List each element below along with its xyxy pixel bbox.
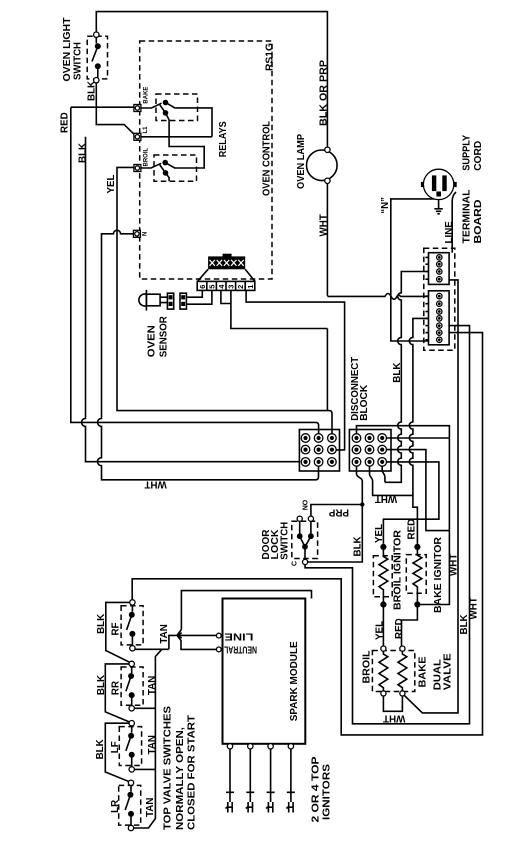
wire pin4 to terminal board	[221, 290, 328, 328]
svg-text:BLOCK: BLOCK	[359, 385, 370, 421]
svg-text:YEL: YEL	[374, 524, 385, 543]
svg-text:OVEN LAMP: OVEN LAMP	[296, 134, 307, 189]
svg-text:OVEN LIGHT: OVEN LIGHT	[62, 17, 73, 81]
svg-text:BROIL: BROIL	[361, 650, 372, 683]
wire door lock C loop to terminal board (BLK rail)	[305, 326, 469, 724]
svg-text:C: C	[291, 561, 298, 566]
svg-text:TAN: TAN	[145, 798, 156, 817]
wire pin5 to sensor	[186, 290, 212, 304]
disconnect block right	[349, 430, 391, 472]
svg-text:NEUTRAL: NEUTRAL	[224, 644, 257, 655]
svg-text:SWITCH: SWITCH	[280, 522, 291, 560]
wire v2 from terminal board to ignitor tops (with hops)	[409, 318, 428, 544]
TAN junction wires	[169, 630, 217, 650]
svg-text:SPARK MODULE: SPARK MODULE	[289, 641, 300, 721]
svg-text:RED: RED	[394, 618, 405, 639]
wire WHT A rail: terminal board to bake valve	[404, 280, 458, 713]
wire BLK chain RF to RR	[106, 602, 130, 662]
svg-text:CLOSED FOR START: CLOSED FOR START	[186, 715, 197, 830]
wire c3 jog to riser	[382, 466, 385, 482]
wire BLK chain LF to LR	[105, 723, 129, 781]
svg-text:TAN: TAN	[159, 624, 170, 643]
svg-text:N: N	[143, 232, 149, 236]
wire TAN RR bottom to bus	[134, 707, 155, 709]
svg-text:TOP VALVE SWITCHES: TOP VALVE SWITCHES	[162, 705, 173, 830]
svg-text:2 OR 4 TOP: 2 OR 4 TOP	[311, 756, 322, 823]
svg-text:CORD: CORD	[473, 141, 484, 171]
svg-text:VALVE: VALVE	[442, 653, 453, 691]
svg-text:YEL: YEL	[106, 174, 117, 193]
wire BLK from oven light switch to L1	[96, 83, 136, 137]
oven control dashed box	[140, 41, 272, 279]
svg-text:BROIL: BROIL	[143, 148, 149, 167]
valve switch LR	[119, 780, 141, 831]
svg-text:5: 5	[207, 285, 216, 289]
supply cord plug	[421, 169, 457, 199]
wire top feed from oven light switch to oven lamp	[96, 12, 327, 148]
oven control connector comb	[197, 254, 255, 282]
svg-text:LR: LR	[110, 800, 121, 813]
svg-text:6: 6	[198, 285, 207, 289]
svg-text:1: 1	[246, 285, 255, 289]
svg-text:BOARD: BOARD	[473, 200, 484, 244]
broil ignitor	[373, 544, 392, 608]
wire spark module top feed	[181, 591, 311, 630]
svg-text:BROIL IGNITOR: BROIL IGNITOR	[392, 530, 403, 610]
svg-text:NORMALLY OPEN,: NORMALLY OPEN,	[175, 727, 186, 830]
wire N from plug to terminal board	[391, 199, 434, 341]
valve switch RR	[121, 661, 143, 711]
svg-text:IGNITORS: IGNITORS	[321, 763, 332, 820]
svg-text:SUPPLY: SUPPLY	[461, 134, 472, 170]
terminal N	[133, 230, 148, 237]
ground symbol under plug	[434, 200, 442, 214]
wire RED: V1 from BAKE terminal down-left and to disconnect block	[71, 107, 319, 433]
terminal BROIL	[134, 148, 149, 172]
terminal BAKE	[134, 87, 149, 112]
svg-text:WHT: WHT	[144, 479, 166, 490]
svg-text:BLK: BLK	[352, 536, 363, 556]
wire YEL broil ignitor to valve	[382, 605, 384, 647]
wire c1 from right block to door lock junction	[308, 466, 363, 562]
oven lamp	[307, 147, 338, 183]
svg-text:BAKE: BAKE	[417, 656, 428, 688]
svg-text:NO: NO	[302, 499, 309, 510]
wire row3 right block to broil ignitor top	[383, 462, 439, 544]
svg-text:BLK: BLK	[77, 143, 88, 163]
svg-text:RF: RF	[111, 622, 122, 635]
relay 2 (broil)	[141, 137, 204, 182]
svg-text:WHT: WHT	[383, 712, 405, 723]
disconnect block left	[299, 430, 339, 472]
L1 bus inside oven control	[141, 136, 212, 138]
wire TAN LF bottom to bus	[134, 768, 155, 770]
svg-text:WHT: WHT	[319, 214, 330, 236]
terminal board lower block	[425, 291, 449, 345]
wire TAN bus	[134, 649, 162, 828]
wire pin6 to sensor	[186, 290, 202, 297]
svg-text:LF: LF	[110, 741, 121, 753]
wire row1 right block to stair vertical	[387, 437, 450, 439]
svg-text:RR: RR	[111, 681, 122, 695]
svg-text:LINE: LINE	[224, 630, 254, 641]
wire BLK chain RR to LF	[105, 664, 129, 722]
svg-text:PRP: PRP	[328, 507, 349, 518]
dual valve	[372, 646, 414, 696]
wire RED bake ignitor to valve	[402, 605, 418, 647]
svg-text:OVEN CONTROL: OVEN CONTROL	[262, 121, 273, 196]
svg-text:BLK: BLK	[95, 739, 106, 759]
wire C rail: terminal board around bottom to RF switch feed	[132, 333, 482, 735]
svg-text:BAKE: BAKE	[143, 87, 149, 104]
svg-text:3: 3	[227, 285, 236, 289]
spark module box	[223, 599, 306, 744]
svg-text:LINE: LINE	[444, 221, 455, 244]
wire BLK: V2 from L1 down to disconnect block	[82, 137, 300, 462]
wire c2 from right block joining v2	[370, 466, 413, 495]
spark module output terminals	[227, 744, 232, 749]
svg-text:RS1G: RS1G	[264, 43, 275, 71]
spark module input terminals	[216, 633, 221, 638]
svg-text:YEL: YEL	[375, 621, 386, 640]
svg-text:RED: RED	[406, 519, 417, 540]
valve switch LF	[119, 721, 141, 773]
svg-text:TERMINAL: TERMINAL	[461, 189, 472, 243]
svg-text:WHT: WHT	[469, 597, 480, 619]
oven sensor	[139, 290, 187, 311]
terminal board upper block	[425, 253, 449, 285]
svg-text:BLK: BLK	[87, 81, 98, 101]
wire WHT from lamp down to disconnect block	[326, 183, 328, 410]
wire BLK riser v1 from terminal board to disconnect c3 (with hops)	[385, 272, 429, 483]
svg-text:RED: RED	[59, 112, 70, 133]
wire lamp branch to terminal board with break squiggle	[327, 294, 428, 300]
svg-text:L1: L1	[143, 126, 149, 134]
junction dot	[360, 502, 364, 506]
door lock switch	[292, 516, 318, 565]
bake ignitor	[406, 544, 426, 608]
terminal L1	[134, 126, 149, 140]
wire from right block top-left circle over to stair vertical	[357, 426, 450, 605]
svg-text:BLK OR PRP: BLK OR PRP	[319, 59, 330, 126]
terminal board dashed box	[424, 248, 455, 350]
wires to top ignitors	[230, 749, 291, 792]
top ignitor electrodes	[226, 792, 295, 812]
svg-text:OVEN: OVEN	[147, 325, 158, 357]
oven control pin strip 6 5 4 3 2 1	[197, 281, 255, 290]
wire YEL: V4 from BROIL terminal down to disconnect block	[117, 167, 332, 433]
svg-text:RELAYS: RELAYS	[218, 121, 229, 157]
valve switch RF	[121, 600, 143, 651]
svg-text:“N”: “N”	[380, 197, 391, 214]
wire valve bottom U loop	[383, 696, 402, 711]
wire WHT: V3 from N terminal down to disconnect block	[98, 230, 319, 480]
oven light switch	[87, 32, 107, 83]
svg-text:BAKE IGNITOR: BAKE IGNITOR	[433, 537, 444, 613]
wire row2 right block to stair	[387, 450, 450, 531]
svg-text:WHT: WHT	[375, 493, 397, 504]
wire line conductor from plug to terminal board	[452, 192, 456, 253]
svg-text:SENSOR: SENSOR	[159, 316, 170, 357]
wire NO to junction	[311, 505, 362, 517]
svg-text:2: 2	[236, 285, 245, 289]
svg-text:SWITCH: SWITCH	[73, 42, 84, 80]
wire pin1 down to door lock loop	[246, 290, 345, 450]
relay 1 (bake)	[141, 94, 212, 137]
wire TAN RF bottom to junction	[135, 648, 169, 650]
